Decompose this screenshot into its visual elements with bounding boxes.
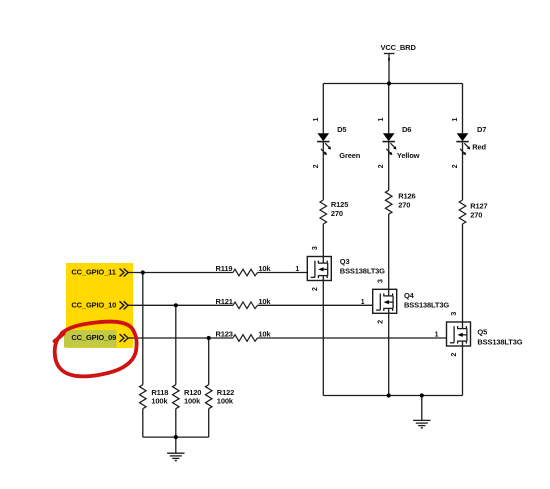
- svg-text:2: 2: [451, 352, 458, 356]
- svg-text:2: 2: [377, 320, 384, 324]
- svg-text:R119: R119: [216, 264, 233, 273]
- svg-text:Yellow: Yellow: [397, 151, 420, 160]
- svg-text:BSS138LT3G: BSS138LT3G: [477, 337, 522, 346]
- svg-text:D5: D5: [337, 125, 346, 134]
- svg-text:2: 2: [313, 164, 320, 168]
- svg-text:R125: R125: [331, 200, 348, 209]
- svg-text:Green: Green: [339, 151, 360, 160]
- svg-text:D7: D7: [477, 125, 486, 134]
- svg-text:10k: 10k: [258, 297, 271, 306]
- svg-text:100k: 100k: [184, 397, 201, 406]
- svg-text:1: 1: [295, 266, 299, 273]
- svg-text:1: 1: [452, 117, 459, 121]
- svg-text:Q3: Q3: [340, 257, 350, 266]
- svg-text:1: 1: [435, 332, 439, 339]
- svg-text:R123: R123: [216, 330, 233, 339]
- svg-text:CC_GPIO_11: CC_GPIO_11: [71, 268, 115, 277]
- svg-text:VCC_BRD: VCC_BRD: [381, 43, 417, 52]
- svg-text:270: 270: [398, 201, 410, 210]
- svg-text:10k: 10k: [258, 330, 271, 339]
- svg-text:R126: R126: [398, 192, 415, 201]
- svg-text:BSS138LT3G: BSS138LT3G: [404, 301, 449, 310]
- svg-text:BSS138LT3G: BSS138LT3G: [340, 266, 385, 275]
- svg-text:3: 3: [377, 279, 384, 283]
- svg-text:2: 2: [452, 164, 459, 168]
- svg-text:Q5: Q5: [477, 328, 487, 337]
- svg-text:3: 3: [312, 246, 319, 250]
- svg-text:CC_GPIO_09: CC_GPIO_09: [71, 333, 116, 342]
- svg-text:1: 1: [378, 117, 385, 121]
- svg-text:R121: R121: [216, 297, 233, 306]
- svg-text:2: 2: [378, 164, 385, 168]
- svg-text:100k: 100k: [151, 397, 168, 406]
- svg-text:270: 270: [470, 211, 482, 220]
- svg-text:D6: D6: [402, 125, 411, 134]
- svg-text:1: 1: [313, 117, 320, 121]
- svg-text:270: 270: [331, 209, 343, 218]
- svg-text:10k: 10k: [258, 264, 271, 273]
- svg-text:CC_GPIO_10: CC_GPIO_10: [71, 300, 116, 309]
- svg-text:3: 3: [451, 312, 458, 316]
- svg-text:R127: R127: [470, 202, 487, 211]
- svg-text:2: 2: [312, 287, 319, 291]
- svg-text:Q4: Q4: [404, 291, 415, 300]
- svg-text:100k: 100k: [217, 397, 234, 406]
- svg-text:1: 1: [361, 299, 365, 306]
- svg-text:Red: Red: [472, 142, 486, 151]
